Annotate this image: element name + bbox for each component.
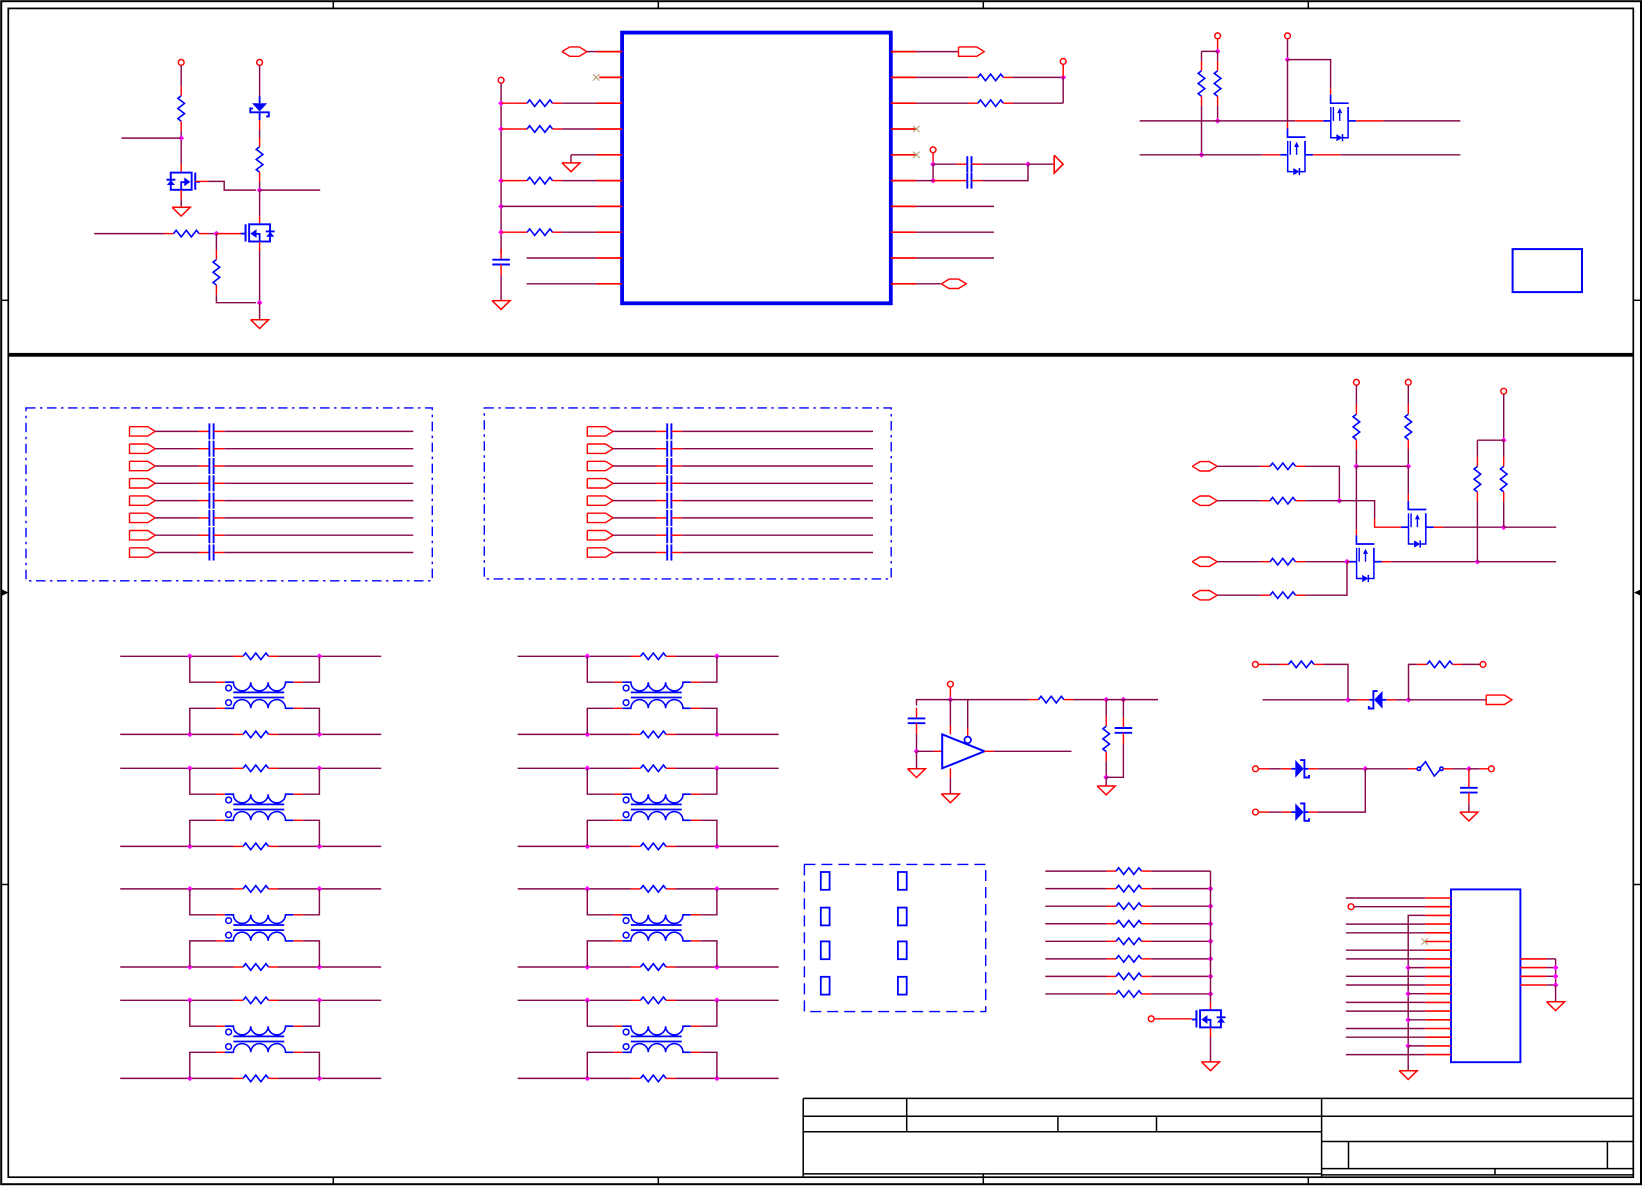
port port B7 <box>587 531 613 540</box>
pad JP1 <box>821 872 830 890</box>
wire <box>1346 897 1426 899</box>
wire <box>1287 39 1289 60</box>
wire <box>700 1052 717 1078</box>
junction <box>317 732 323 738</box>
resistor R72 <box>1107 903 1152 910</box>
pin <box>1425 1019 1451 1021</box>
power pin VDD <box>498 77 504 83</box>
junction <box>1405 1043 1411 1049</box>
capacitor C25 <box>657 510 683 526</box>
wire <box>994 750 1072 752</box>
wire <box>562 102 596 104</box>
resistor R76 <box>1107 973 1152 980</box>
junction <box>1406 697 1412 703</box>
ground <box>1460 812 1478 821</box>
wire <box>180 65 182 86</box>
wire <box>613 448 657 450</box>
port port S1 <box>1192 462 1217 471</box>
junction <box>1501 524 1507 530</box>
wire <box>700 1000 717 1026</box>
ground <box>1097 786 1115 795</box>
wire <box>518 966 631 968</box>
wire <box>1217 594 1260 596</box>
junction <box>1060 75 1066 81</box>
wire <box>155 448 199 450</box>
wire <box>613 534 657 536</box>
wire <box>1407 385 1409 404</box>
wire <box>682 448 873 450</box>
wire <box>527 257 597 259</box>
wire <box>1408 1019 1425 1021</box>
port port A4 <box>130 479 156 488</box>
wire <box>224 534 413 536</box>
resistor R <box>518 229 563 236</box>
junction <box>1337 498 1343 504</box>
wire <box>224 465 413 467</box>
wire <box>224 430 413 432</box>
pin <box>891 205 917 207</box>
junction <box>257 187 263 193</box>
wire <box>303 941 320 967</box>
port port A1 <box>130 427 156 436</box>
junction <box>714 997 720 1003</box>
port port B1 <box>587 427 613 436</box>
wire <box>303 708 320 734</box>
junction <box>584 886 590 892</box>
pin <box>1425 914 1451 916</box>
resistor R63 <box>1417 661 1462 668</box>
zener diode D3 <box>1291 760 1309 778</box>
wire <box>587 708 614 734</box>
capacitor C31 <box>1115 717 1133 743</box>
fuse F1 <box>1417 762 1443 776</box>
pin <box>891 231 917 233</box>
wire <box>518 767 631 769</box>
wire <box>691 914 701 916</box>
capacitor C12 <box>199 458 225 474</box>
wire <box>1408 993 1425 995</box>
wire <box>293 819 303 821</box>
junction <box>584 964 590 970</box>
pin <box>1425 1028 1451 1030</box>
pin <box>891 180 917 182</box>
wire <box>1287 122 1289 128</box>
wire <box>614 940 623 942</box>
ground <box>1202 1062 1220 1071</box>
junction <box>498 178 504 184</box>
wire <box>1503 502 1505 528</box>
junction <box>1208 938 1214 944</box>
junction <box>584 653 590 659</box>
junction <box>187 964 193 970</box>
junction <box>1501 437 1507 443</box>
wire <box>1258 663 1269 665</box>
transistor Q4 <box>1280 129 1313 176</box>
pin <box>597 257 623 259</box>
wire <box>293 1025 303 1027</box>
wire <box>1355 385 1357 404</box>
wire <box>682 534 873 536</box>
capacitor C21 <box>657 441 683 457</box>
pin <box>1520 967 1546 969</box>
junction <box>317 886 323 892</box>
resistor R74 <box>1107 938 1152 945</box>
junction <box>214 231 220 237</box>
wire <box>1396 699 1409 701</box>
pin <box>1425 975 1451 977</box>
power pin VBAT <box>257 60 263 66</box>
junction <box>498 229 504 235</box>
wire <box>691 681 701 683</box>
capacitor C11 <box>199 441 225 457</box>
wire <box>1409 699 1487 701</box>
resistor R54 <box>1353 405 1360 450</box>
wire <box>155 465 199 467</box>
wire <box>1346 1001 1426 1003</box>
wire <box>1356 120 1383 122</box>
power pin VIN1 <box>1253 766 1259 772</box>
wire <box>293 681 303 683</box>
pin <box>597 180 623 182</box>
wire <box>1045 940 1106 942</box>
wire <box>121 137 181 139</box>
pin <box>599 76 622 78</box>
resistor R <box>518 177 563 184</box>
wire <box>982 163 1028 165</box>
wire <box>180 199 182 207</box>
wire <box>260 189 321 191</box>
wire <box>303 768 320 794</box>
capacitor C26 <box>657 527 683 543</box>
wire <box>613 465 657 467</box>
wire <box>949 687 951 699</box>
port P3 <box>1054 155 1063 173</box>
wire <box>224 552 413 554</box>
wire <box>518 733 631 735</box>
wire <box>293 940 303 942</box>
common-mode choke T1 <box>225 682 293 708</box>
common-mode choke T7 <box>622 915 690 941</box>
zener diode D4 <box>1291 803 1309 821</box>
wire <box>614 819 623 821</box>
capacitor C24 <box>657 493 683 509</box>
power pin VC <box>1501 388 1507 394</box>
wire <box>675 655 778 657</box>
wire <box>587 820 614 846</box>
wire <box>1105 700 1107 717</box>
pin <box>1425 941 1451 943</box>
resistor R7 <box>1198 61 1205 106</box>
pin <box>1425 1010 1451 1012</box>
wire <box>120 999 233 1001</box>
wire <box>1308 811 1317 813</box>
wire <box>587 656 614 682</box>
resistor R5 <box>968 74 1013 81</box>
pin <box>1425 958 1451 960</box>
wire <box>682 500 873 502</box>
junction <box>317 964 323 970</box>
resistor R75 <box>1107 956 1152 963</box>
wire <box>1355 449 1357 466</box>
wire <box>1408 768 1417 770</box>
pin <box>1520 958 1546 960</box>
wire <box>1547 958 1556 960</box>
junction <box>498 126 504 132</box>
wire <box>916 205 994 207</box>
transistor Q1 <box>166 173 200 190</box>
wire <box>1288 60 1331 89</box>
wire <box>190 768 217 794</box>
wire <box>614 914 623 916</box>
wire <box>1408 967 1425 969</box>
wire <box>216 940 225 942</box>
resistor R53 <box>1261 592 1306 599</box>
junction <box>584 1076 590 1082</box>
power pin VCC1 <box>178 60 184 66</box>
wire <box>259 65 261 96</box>
pin <box>597 154 623 156</box>
wire <box>1408 1045 1425 1047</box>
wire <box>1151 958 1210 960</box>
wire <box>1210 1028 1212 1037</box>
wire <box>949 777 951 794</box>
frame zone tick <box>1 299 8 301</box>
wire <box>216 233 241 235</box>
pin <box>1425 1036 1451 1038</box>
wire <box>1462 663 1480 665</box>
pin <box>1425 906 1451 908</box>
wire <box>1269 811 1282 813</box>
resistor R40 <box>631 653 676 660</box>
resistor R33 <box>234 731 279 738</box>
pin <box>1520 975 1546 977</box>
wire <box>1503 440 1505 457</box>
wire <box>1263 699 1349 701</box>
wire <box>613 517 657 519</box>
frame center arrow left <box>2 589 9 596</box>
capacitor C3 <box>957 173 983 189</box>
junction <box>1362 766 1368 772</box>
capacitor C30 <box>908 708 926 734</box>
pad JP5 <box>821 941 830 959</box>
wire <box>614 1051 623 1053</box>
junction <box>1553 965 1559 971</box>
op-amp U2 <box>942 734 984 768</box>
frame zone tick <box>657 1 659 8</box>
resistor R2 <box>256 137 263 182</box>
wire <box>1555 985 1557 1002</box>
junction <box>1208 956 1214 962</box>
wire <box>1477 439 1503 441</box>
wire <box>1217 465 1260 467</box>
junction <box>1553 973 1559 979</box>
wire <box>916 76 968 78</box>
wire <box>967 729 969 737</box>
wire <box>1140 120 1296 122</box>
power pin VP2 <box>1480 662 1486 668</box>
wire <box>1210 1037 1212 1062</box>
junction <box>1025 161 1031 167</box>
resistor R47 <box>631 1075 676 1082</box>
frame zone tick <box>1307 1 1309 8</box>
resistor R6 <box>968 100 1013 107</box>
wire <box>950 700 967 729</box>
wire <box>1453 768 1469 770</box>
junction <box>714 653 720 659</box>
wire <box>916 257 994 259</box>
resistor R <box>518 126 563 133</box>
wire <box>1547 984 1556 986</box>
resistor R51 <box>1261 497 1306 504</box>
wire <box>1409 664 1418 699</box>
wire <box>303 889 320 915</box>
wire <box>224 448 413 450</box>
port P2 <box>959 47 985 56</box>
wire <box>190 889 217 915</box>
junction <box>1208 921 1214 927</box>
junction <box>914 748 920 754</box>
wire <box>120 733 233 735</box>
wire <box>613 430 657 432</box>
wire <box>1468 803 1470 812</box>
wire <box>1408 915 1425 1046</box>
wire <box>208 181 256 190</box>
port port S4 <box>1192 591 1217 600</box>
wire <box>1383 120 1460 122</box>
pin <box>597 283 623 285</box>
wire <box>1013 76 1063 78</box>
junction <box>714 964 720 970</box>
wire <box>501 180 517 182</box>
power pin VREF <box>948 681 954 687</box>
wire <box>259 216 261 224</box>
resistor R62 <box>1279 661 1324 668</box>
wire <box>613 500 657 502</box>
wire <box>1356 465 1408 467</box>
wire <box>675 767 778 769</box>
power pin VA <box>1354 379 1360 385</box>
wire <box>215 234 217 250</box>
junction <box>498 100 504 106</box>
wire <box>293 1051 303 1053</box>
wire <box>1201 106 1203 155</box>
common-mode choke T2 <box>225 794 293 820</box>
wire <box>1013 102 1063 104</box>
junction <box>1208 886 1214 892</box>
pad JP3 <box>821 908 830 926</box>
wire <box>917 700 951 706</box>
wire <box>691 1051 701 1053</box>
wire <box>216 295 256 303</box>
resistor R73 <box>1107 920 1152 927</box>
resistor R55 <box>1405 405 1412 450</box>
junction <box>1405 991 1411 997</box>
wire <box>501 128 517 130</box>
wire <box>682 517 873 519</box>
pin <box>597 205 623 207</box>
wire <box>1045 993 1106 995</box>
common-mode choke T4 <box>225 1026 293 1052</box>
junction <box>930 178 936 184</box>
wire <box>700 656 717 682</box>
power pin VDD3 <box>930 147 936 153</box>
junction <box>584 765 590 771</box>
wire <box>195 180 208 182</box>
wire <box>614 793 623 795</box>
wire <box>1201 51 1203 61</box>
resistor R32 <box>234 653 279 660</box>
capacitor C14 <box>199 493 225 509</box>
wire <box>278 845 381 847</box>
wire <box>278 888 381 890</box>
port port A7 <box>130 531 156 540</box>
wire <box>1330 88 1332 94</box>
wire <box>303 656 320 682</box>
capacitor C16 <box>199 527 225 543</box>
wire <box>527 283 597 285</box>
resistor R <box>518 100 563 107</box>
pin <box>891 128 917 130</box>
wire <box>1305 466 1339 500</box>
ground <box>941 794 959 803</box>
junction <box>584 732 590 738</box>
wire <box>501 231 517 233</box>
wire <box>587 768 614 794</box>
wire <box>1407 1046 1409 1071</box>
junction <box>1121 697 1127 703</box>
pin <box>1425 949 1451 951</box>
pin <box>1425 932 1451 934</box>
frame center arrow right <box>1634 589 1641 596</box>
wire <box>120 845 233 847</box>
wire <box>1504 526 1557 528</box>
junction <box>1475 559 1481 565</box>
wire <box>155 430 199 432</box>
wire <box>1443 768 1452 770</box>
wire <box>916 102 968 104</box>
wire <box>1151 870 1210 872</box>
wire <box>691 940 701 942</box>
capacitor C20 <box>657 423 683 439</box>
junction <box>317 844 323 850</box>
junction <box>1345 697 1351 703</box>
port P4 <box>941 279 966 288</box>
wire <box>216 793 225 795</box>
wire <box>614 1025 623 1027</box>
wire <box>1346 984 1426 986</box>
no-connect <box>1421 938 1427 944</box>
junction <box>187 653 193 659</box>
wire <box>1287 60 1289 123</box>
junction <box>584 997 590 1003</box>
wire <box>982 164 1028 180</box>
wire <box>190 708 217 734</box>
resistor R45 <box>631 964 676 971</box>
wire <box>1346 1054 1426 1056</box>
no-connect <box>913 152 919 158</box>
module outline <box>1513 249 1582 292</box>
wire <box>1308 768 1317 770</box>
wire <box>1062 77 1064 103</box>
junction <box>187 732 193 738</box>
capacitor C17 <box>199 545 225 561</box>
wire <box>1151 905 1210 907</box>
wire <box>155 500 199 502</box>
pin <box>1425 993 1451 995</box>
wire <box>1202 50 1218 52</box>
pin <box>891 102 917 104</box>
wire <box>1259 768 1270 770</box>
